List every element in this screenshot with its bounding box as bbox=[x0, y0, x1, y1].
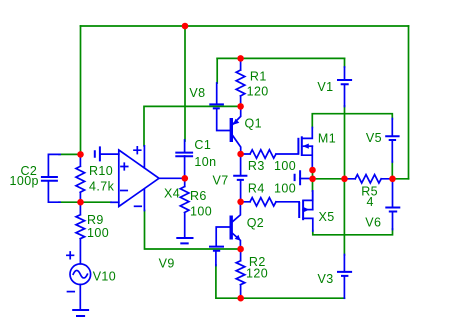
battery V8 bbox=[216, 83, 218, 104]
svg-text:100: 100 bbox=[190, 205, 212, 219]
svg-text:V3: V3 bbox=[318, 272, 334, 286]
battery at op-amp noninverting input bbox=[95, 146, 100, 161]
svg-text:Q1: Q1 bbox=[245, 116, 262, 130]
svg-text:R9: R9 bbox=[87, 213, 104, 227]
battery V9 bbox=[216, 227, 229, 246]
svg-text:R6: R6 bbox=[190, 189, 207, 203]
resistor R3 bbox=[241, 150, 299, 158]
svg-text:V9: V9 bbox=[159, 256, 175, 270]
battery V3 bbox=[343, 255, 345, 272]
wire left vertical from top rail to R10 node bbox=[80, 26, 82, 154]
svg-text:X5: X5 bbox=[319, 210, 335, 224]
battery V7 bbox=[240, 154, 242, 176]
svg-text:V6: V6 bbox=[365, 215, 381, 229]
svg-text:4: 4 bbox=[367, 195, 374, 209]
svg-text:100: 100 bbox=[274, 182, 296, 196]
resistor R10 bbox=[76, 158, 85, 199]
capacitor C1 bbox=[184, 140, 186, 178]
svg-text:4.7k: 4.7k bbox=[89, 179, 115, 193]
svg-text:V5: V5 bbox=[366, 131, 382, 145]
wire right rail into R5 node bbox=[393, 178, 409, 180]
wire C2 bottom to op-amp inverting input bbox=[59, 201, 111, 203]
svg-text:V10: V10 bbox=[93, 270, 116, 284]
wire between M1 source node and X5 drain node bbox=[312, 170, 314, 191]
junction R1 bottom / Q1 emitter bbox=[237, 103, 244, 110]
junction op-amp output bbox=[182, 175, 189, 182]
junction R1 top bbox=[237, 55, 244, 62]
svg-text:V8: V8 bbox=[189, 86, 205, 100]
wire op-amp V- rail to Q2 emitter bbox=[145, 211, 241, 250]
wire V1 bottom to output rail bbox=[344, 106, 346, 179]
wire R1/V8/V1 rail bbox=[217, 57, 344, 59]
wire right vertical from top rail down bbox=[408, 26, 410, 179]
svg-text:100: 100 bbox=[274, 159, 296, 173]
svg-text:R10: R10 bbox=[89, 164, 113, 178]
battery V5 bbox=[391, 119, 393, 137]
svg-text:V1: V1 bbox=[317, 80, 333, 94]
svg-text:100p: 100p bbox=[10, 174, 39, 188]
wire output rail down to V3 bbox=[343, 179, 345, 255]
junction V7 bottom / Q2 collector / R4 bbox=[237, 199, 244, 206]
junction R10 top / C2 bbox=[77, 151, 84, 158]
resistor R1 bbox=[236, 58, 245, 106]
wire V8 top lead green part bbox=[216, 58, 218, 83]
junction Q2 emitter / R2 top bbox=[237, 246, 244, 253]
resistor R9 bbox=[76, 206, 85, 264]
wire from top rail down to C1 bbox=[184, 26, 186, 141]
battery at X5 drain node bbox=[295, 170, 301, 185]
mosfet X5 bbox=[299, 191, 313, 231]
ground at V10 bbox=[72, 310, 89, 316]
junction R5 right / V5 / V6 bbox=[389, 176, 396, 183]
resistor R2 bbox=[236, 249, 245, 298]
ground at R6 bbox=[176, 238, 193, 243]
svg-text:X4: X4 bbox=[164, 187, 180, 201]
transistor Q1 bbox=[231, 106, 240, 154]
svg-text:R4: R4 bbox=[248, 182, 265, 196]
wire X5 source to V6 bottom bbox=[313, 229, 393, 235]
junction X5 drain node bbox=[309, 176, 316, 183]
svg-text:R3: R3 bbox=[248, 159, 265, 173]
junction top rail / C1 bbox=[182, 23, 189, 30]
svg-text:120: 120 bbox=[246, 267, 268, 281]
junction Q1 collector / V7 top / R3 bbox=[237, 151, 244, 158]
junction V1/V3 on output rail bbox=[341, 176, 348, 183]
wire X5 drain node to V1/V3 column bbox=[313, 178, 345, 180]
svg-text:10n: 10n bbox=[194, 155, 216, 169]
wire V1 top lead green part bbox=[344, 58, 346, 67]
battery V6 bbox=[392, 179, 394, 208]
wire bottom rail V9/R2/V3 bbox=[216, 265, 345, 298]
svg-text:C1: C1 bbox=[194, 138, 211, 152]
svg-text:100: 100 bbox=[87, 226, 109, 240]
capacitor C2 bbox=[48, 154, 60, 202]
source V10 bbox=[67, 252, 91, 310]
battery V1 bbox=[344, 67, 346, 80]
junction M1 source bbox=[309, 167, 316, 174]
resistor R5 bbox=[345, 175, 393, 183]
resistor R4 bbox=[241, 198, 300, 206]
svg-text:120: 120 bbox=[247, 84, 269, 98]
junction R2 bottom on bottom rail bbox=[237, 295, 244, 302]
svg-text:Q2: Q2 bbox=[247, 216, 264, 230]
svg-text:V7: V7 bbox=[213, 174, 229, 188]
resistor R6 bbox=[180, 178, 189, 238]
junction R10 bottom / R9 top bbox=[77, 199, 84, 206]
op-amp X4 bbox=[111, 146, 185, 211]
wire op-amp V+ rail bbox=[144, 106, 241, 145]
svg-text:M1: M1 bbox=[318, 131, 336, 145]
wire M1 drain to V5 top bbox=[312, 114, 392, 128]
wire C2 top to R10 node bbox=[59, 153, 81, 155]
mosfet M1 bbox=[298, 128, 312, 171]
wire top rail bbox=[81, 25, 409, 27]
wire V5 bottom to R5 node bbox=[391, 162, 393, 179]
svg-text:R1: R1 bbox=[250, 70, 267, 84]
transistor Q2 bbox=[231, 202, 241, 249]
